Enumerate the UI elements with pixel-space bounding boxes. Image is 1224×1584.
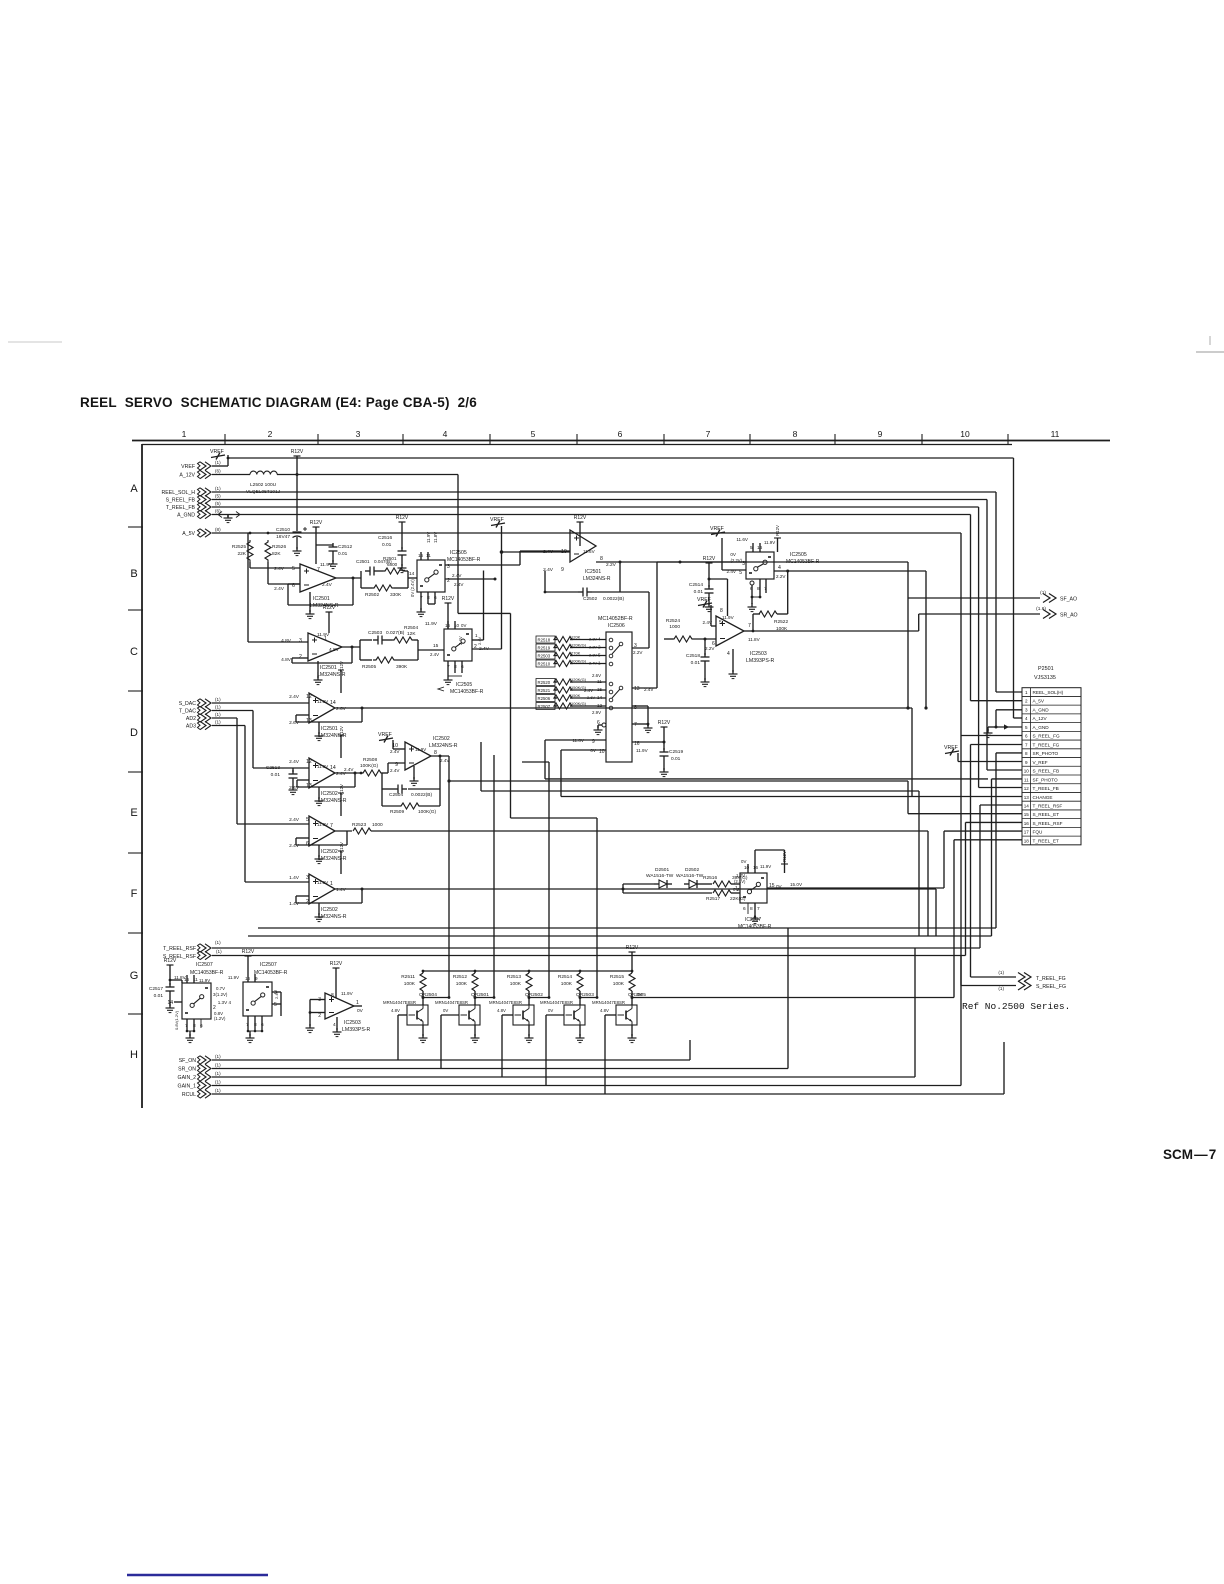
- svg-text:1.4V: 1.4V: [336, 887, 347, 893]
- svg-text:FQU: FQU: [1033, 830, 1044, 835]
- svg-text:SF_PHOTO: SF_PHOTO: [1033, 777, 1059, 782]
- svg-text:C2513: C2513: [266, 765, 280, 771]
- svg-text:4: 4: [1025, 716, 1028, 721]
- wires IC2507B bottom: [247, 1016, 249, 1031]
- svg-text:6: 6: [306, 841, 309, 847]
- svg-text:4: 4: [778, 565, 781, 571]
- analog switch IC2507 C: [740, 873, 767, 903]
- svg-text:IC2501: IC2501: [321, 726, 338, 732]
- svg-text:1: 1: [356, 1000, 359, 1006]
- svg-text:SCM — 7: SCM — 7: [1163, 1147, 1216, 1162]
- svg-text:T_REEL_FG: T_REEL_FG: [1033, 742, 1060, 747]
- svg-text:T_REEL_FB: T_REEL_FB: [166, 505, 196, 511]
- wire QR2503 base feed: [546, 1014, 564, 1016]
- svg-text:REEL SERVO SCHEMATIC DIAGRAM: REEL SERVO SCHEMATIC DIAGRAM (E4: Page C…: [80, 395, 477, 410]
- ground under IC2502E: [413, 766, 415, 779]
- svg-text:WA1516-TW: WA1516-TW: [676, 873, 704, 879]
- svg-text:4.8V: 4.8V: [281, 638, 292, 644]
- svg-text:IC2505: IC2505: [790, 552, 807, 558]
- svg-text:0V (2.4V): 0V (2.4V): [410, 579, 415, 597]
- svg-text:IC2507: IC2507: [260, 962, 277, 968]
- wire T_DAC route: [212, 710, 253, 712]
- wire R2525 to opamp input: [249, 562, 251, 568]
- svg-text:0V: 0V: [461, 623, 466, 628]
- op-amp IC2502 (3,2,1): [309, 874, 335, 904]
- svg-text:MC14052BF-R: MC14052BF-R: [598, 616, 633, 622]
- capacitor C2512: [316, 544, 333, 546]
- svg-text:0.7V: 0.7V: [216, 986, 225, 991]
- svg-text:SR_ON: SR_ON: [178, 1067, 196, 1073]
- wire IC2507C pin15 out to pin17: [767, 887, 944, 889]
- wire AD2 route: [212, 717, 237, 719]
- svg-text:(1): (1): [215, 940, 221, 945]
- faint page artifacts: [8, 341, 62, 343]
- svg-text:2.2V: 2.2V: [776, 574, 786, 579]
- svg-text:MRN14047E8SR: MRN14047E8SR: [435, 1000, 468, 1005]
- svg-text:SF_AO: SF_AO: [1060, 597, 1077, 603]
- svg-text:0V: 0V: [443, 1008, 448, 1013]
- svg-text:(1): (1): [215, 1088, 221, 1093]
- svg-text:R2521: R2521: [538, 688, 551, 693]
- wire RCUL: [212, 1093, 1004, 1095]
- svg-text:11.9V: 11.9V: [636, 748, 649, 753]
- svg-text:MC14053BF-R: MC14053BF-R: [450, 689, 484, 695]
- svg-text:B: B: [130, 568, 137, 580]
- svg-text:V_REF: V_REF: [1033, 760, 1048, 765]
- resistor R2511: [422, 971, 424, 973]
- resistor R2509 feedback: [381, 789, 383, 806]
- svg-text:R12V: R12V: [242, 949, 255, 955]
- svg-text:IC2507: IC2507: [745, 917, 761, 923]
- svg-text:100K(G): 100K(G): [571, 658, 587, 663]
- svg-text:VREF: VREF: [944, 745, 958, 751]
- svg-text:A_5V: A_5V: [1033, 699, 1045, 704]
- op-amp IC2501 B (pins 3,2,1): [308, 633, 342, 661]
- analog switch IC2507 B: [243, 982, 272, 1016]
- svg-text:100K(G): 100K(G): [360, 763, 379, 769]
- svg-text:S_REEL_FB: S_REEL_FB: [166, 498, 196, 504]
- resistor R2523: [335, 830, 352, 832]
- svg-text:4: 4: [333, 1022, 336, 1028]
- svg-text:16V47: 16V47: [276, 534, 290, 540]
- wire A_12V rail: [212, 474, 250, 476]
- resistor R2512: [474, 971, 476, 973]
- svg-text:8: 8: [720, 608, 723, 614]
- svg-text:0.01: 0.01: [154, 993, 164, 999]
- wire A_12V rail drop to pin4: [1013, 458, 1015, 718]
- svg-text:2.4V: 2.4V: [584, 688, 593, 693]
- transistor QR2501: [474, 991, 476, 1005]
- svg-text:D2502: D2502: [685, 867, 699, 873]
- wire IC2507B pin3 5 out: [272, 991, 281, 993]
- wire QR2504 collector: [423, 997, 449, 999]
- svg-text:R2509: R2509: [390, 809, 404, 815]
- svg-text:2.6V: 2.6V: [289, 720, 300, 726]
- svg-text:11.9V: 11.9V: [320, 562, 333, 568]
- svg-text:4: 4: [727, 651, 730, 657]
- input connector GAIN_1: [205, 1081, 211, 1089]
- svg-text:VREF: VREF: [378, 732, 392, 738]
- wire IC2502E out long: [431, 755, 449, 757]
- resistor R2507: [536, 703, 555, 710]
- svg-text:IC2507: IC2507: [196, 962, 213, 968]
- svg-text:100K(G): 100K(G): [418, 809, 437, 815]
- svg-text:C2502: C2502: [583, 596, 597, 602]
- svg-text:R2506: R2506: [538, 696, 551, 701]
- svg-text:(5): (5): [215, 494, 221, 499]
- svg-text:C2504: C2504: [389, 792, 403, 798]
- svg-text:6: 6: [743, 906, 746, 912]
- resistor R2506: [536, 695, 555, 702]
- svg-text:11.9V: 11.9V: [341, 991, 354, 996]
- svg-text:11.9V: 11.9V: [722, 615, 735, 620]
- svg-text:4.8V: 4.8V: [391, 1008, 400, 1013]
- wire REEL_SOL_H rail: [212, 491, 996, 493]
- wire S_REEL_RSF long to pin16: [212, 955, 966, 957]
- wire pin8 stub: [996, 761, 1022, 763]
- svg-text:2: 2: [306, 899, 309, 905]
- wire to SR_AO: [919, 613, 1040, 615]
- svg-text:CHANGE: CHANGE: [1033, 795, 1053, 800]
- wire QR2504 base feed: [398, 1014, 407, 1016]
- svg-text:A_12V: A_12V: [1033, 716, 1048, 721]
- capacitor C2504 feedback: [439, 756, 441, 789]
- svg-text:11.9V: 11.9V: [425, 621, 438, 627]
- svg-text:2.4V: 2.4V: [390, 749, 400, 754]
- svg-text:1000: 1000: [372, 822, 383, 828]
- resistor R2522: [744, 630, 753, 632]
- svg-text:R2520: R2520: [538, 680, 551, 685]
- svg-text:A_GND: A_GND: [177, 513, 195, 519]
- svg-text:R2526: R2526: [272, 544, 286, 550]
- resistor R2525: [247, 540, 253, 562]
- svg-text:10: 10: [744, 865, 750, 870]
- svg-text:R2524: R2524: [666, 618, 680, 624]
- svg-text:5: 5: [274, 1002, 277, 1008]
- svg-text:22K: 22K: [237, 551, 246, 557]
- svg-text:SR_PHOTO: SR_PHOTO: [1033, 751, 1059, 756]
- wire QR2502 emitter ground: [528, 1025, 530, 1036]
- svg-text:2.4V: 2.4V: [390, 768, 400, 773]
- svg-text:100K: 100K: [456, 981, 468, 987]
- svg-text:VJS3135: VJS3135: [1034, 675, 1056, 681]
- svg-text:LM324NS-R: LM324NS-R: [429, 743, 458, 749]
- input connector VREF: [205, 462, 211, 470]
- svg-text:(1): (1): [215, 697, 221, 702]
- svg-text:270K: 270K: [571, 650, 581, 655]
- svg-text:R2508: R2508: [363, 757, 377, 763]
- svg-text:R12V: R12V: [164, 958, 177, 964]
- svg-text:C2510: C2510: [276, 527, 290, 533]
- wire opamp C out long: [335, 707, 912, 709]
- svg-text:9: 9: [878, 429, 883, 439]
- wire R2526 to opamp inv input: [267, 562, 269, 584]
- wire to T_REEL_FG out: [971, 976, 1017, 978]
- svg-text:15: 15: [433, 643, 439, 649]
- svg-text:S_REEL_ET: S_REEL_ET: [1033, 812, 1060, 817]
- wires IC2503B inputs: [310, 999, 325, 1001]
- svg-text:12: 12: [1024, 786, 1030, 791]
- capacitor C2502 feedback: [619, 562, 621, 592]
- input connector S_REEL_FB: [205, 495, 211, 503]
- wire transistor R12V rail: [423, 970, 632, 972]
- svg-text:R2505: R2505: [362, 664, 376, 670]
- svg-text:2.6V: 2.6V: [592, 673, 601, 678]
- svg-text:R2522: R2522: [774, 619, 788, 625]
- svg-text:6: 6: [1025, 734, 1028, 739]
- svg-text:8: 8: [750, 906, 753, 912]
- wire SR_ON: [212, 1068, 788, 1070]
- svg-text:17: 17: [1024, 830, 1030, 835]
- svg-text:Ref No.2500 Series.: Ref No.2500 Series.: [962, 1001, 1070, 1012]
- svg-text:13: 13: [634, 686, 640, 692]
- op-amp IC2502 (5,6,7): [309, 816, 335, 846]
- svg-text:MC14053BF-R: MC14053BF-R: [254, 970, 288, 976]
- ground under C2510: [296, 537, 298, 549]
- svg-text:F: F: [131, 888, 138, 900]
- svg-text:14: 14: [330, 765, 336, 771]
- svg-text:D2501: D2501: [655, 867, 669, 873]
- wires IC2507C bottom: [747, 903, 749, 914]
- svg-text:0V: 0V: [741, 859, 746, 864]
- svg-text:IC2502: IC2502: [321, 849, 338, 855]
- svg-text:VREF: VREF: [710, 526, 724, 532]
- op-amp IC2501 A (pins 5,6,7): [300, 564, 336, 592]
- svg-text:7: 7: [757, 906, 760, 912]
- svg-text:12: 12: [306, 694, 312, 700]
- input connector T_REEL_RSF: [205, 944, 211, 952]
- svg-text:IC2502: IC2502: [433, 736, 450, 742]
- svg-text:120K: 120K: [571, 634, 581, 639]
- wires IC2505A bottom pins: [420, 592, 422, 610]
- svg-text:8: 8: [331, 993, 334, 999]
- wire bottom rail y936 to pin11: [248, 935, 992, 937]
- op-amp IC2501 C (pins 10,9,8): [570, 530, 596, 562]
- svg-text:100K(G): 100K(G): [571, 701, 587, 706]
- svg-text:120K(G): 120K(G): [571, 642, 587, 647]
- svg-text:5: 5: [739, 570, 742, 576]
- wire IC2503B out: [354, 1005, 362, 1007]
- wire QR2501 collector: [475, 997, 494, 999]
- wire QR2502 collector: [529, 997, 549, 999]
- svg-text:AD3: AD3: [186, 724, 196, 730]
- svg-text:(1): (1): [215, 712, 221, 717]
- ground at IC2503A pin4: [732, 658, 734, 672]
- wire C2517 to IC2507A: [170, 979, 182, 981]
- wire pin6 to S_REEL_FG arrow: [960, 736, 962, 986]
- wire QR2505 base feed: [605, 1014, 616, 1016]
- input connector RCUL: [205, 1090, 211, 1098]
- wire opamp G line join rail: [935, 889, 937, 936]
- svg-text:1.4V: 1.4V: [289, 875, 300, 881]
- analog switch IC2505 C: [746, 552, 774, 579]
- svg-text:0.0022(B): 0.0022(B): [603, 596, 624, 602]
- resistor R2520: [536, 679, 555, 686]
- resistor R2521: [536, 687, 555, 694]
- wire QR2501 emitter ground: [474, 1025, 476, 1036]
- svg-text:LM393PS-R: LM393PS-R: [342, 1027, 371, 1033]
- svg-text:11.8V: 11.8V: [433, 532, 438, 543]
- ground under opamp A: [309, 592, 311, 612]
- svg-text:R2501: R2501: [383, 556, 397, 561]
- wire QR2502 base feed: [502, 1014, 513, 1016]
- op-amp IC2502 E (pins 10,9,8): [405, 742, 431, 770]
- svg-text:T_REEL_RSF: T_REEL_RSF: [163, 946, 196, 952]
- wire opamp C output: [596, 561, 680, 563]
- wire opamp G out long: [335, 888, 936, 890]
- svg-text:R2519: R2519: [538, 645, 551, 650]
- input connector T_DAC: [205, 706, 211, 714]
- svg-text:14: 14: [330, 700, 336, 706]
- svg-text:C2503: C2503: [368, 630, 382, 636]
- diode D2502: [684, 883, 689, 885]
- svg-text:IC2502: IC2502: [321, 907, 338, 913]
- svg-text:18: 18: [1024, 838, 1030, 843]
- svg-text:5: 5: [306, 817, 309, 823]
- svg-text:REEL_SOL(H): REEL_SOL(H): [1033, 690, 1064, 695]
- svg-text:(1.2V): (1.2V): [214, 1016, 226, 1021]
- transistor QR2503: [579, 991, 581, 1005]
- svg-text:R2516: R2516: [703, 875, 717, 881]
- wire A_12V top rail: [228, 457, 1014, 459]
- wire VREF to opamp C plus input: [502, 551, 571, 553]
- svg-text:GAIN_1: GAIN_1: [178, 1084, 197, 1090]
- svg-text:16: 16: [753, 865, 759, 870]
- input connector T_REEL_FB: [205, 503, 211, 511]
- svg-text:C: C: [130, 646, 138, 658]
- svg-text:11.9V: 11.9V: [317, 699, 328, 704]
- wire to IC2505 C pin15: [418, 649, 444, 651]
- svg-text:T_REEL_FG: T_REEL_FG: [1036, 976, 1066, 982]
- wire opamp B feedback bottom: [342, 646, 360, 648]
- svg-text:R2513: R2513: [507, 974, 521, 980]
- wire IC2505A pin3 rail: [445, 564, 520, 566]
- resistor R2518: [536, 636, 555, 643]
- svg-text:AD2: AD2: [186, 716, 196, 722]
- svg-text:MRN14047E8SR: MRN14047E8SR: [592, 1000, 625, 1005]
- svg-text:13: 13: [306, 783, 312, 789]
- svg-text:T_REEL_FB: T_REEL_FB: [1033, 786, 1059, 791]
- svg-text:1000: 1000: [669, 624, 680, 630]
- svg-text:2: 2: [268, 429, 273, 439]
- svg-text:D: D: [130, 727, 138, 739]
- svg-text:12: 12: [306, 759, 312, 765]
- svg-text:R12V: R12V: [310, 520, 323, 526]
- svg-text:2.2V: 2.2V: [606, 562, 617, 568]
- wire AD3 route: [212, 725, 245, 727]
- svg-text:R2512: R2512: [453, 974, 467, 980]
- svg-text:VREF: VREF: [181, 464, 195, 470]
- svg-text:IC2501: IC2501: [313, 596, 330, 602]
- resistor R2526: [265, 540, 271, 562]
- svg-text:3: 3: [306, 875, 309, 881]
- svg-text:C2519: C2519: [669, 749, 683, 755]
- svg-text:R12V: R12V: [323, 605, 336, 611]
- svg-text:MC14053BF-R: MC14053BF-R: [738, 924, 772, 930]
- svg-text:IC2503: IC2503: [750, 651, 767, 657]
- resistor R2519: [536, 644, 555, 651]
- svg-text:(1): (1): [215, 1063, 221, 1068]
- wire opamp G feedback: [361, 889, 363, 903]
- svg-text:1: 1: [182, 429, 187, 439]
- svg-text:1.4V: 1.4V: [289, 901, 300, 907]
- wire QR2504 emitter ground: [422, 1025, 424, 1036]
- wire vertical bus x597: [596, 818, 598, 997]
- svg-text:R2515: R2515: [610, 974, 624, 980]
- svg-text:R12V: R12V: [330, 961, 343, 967]
- svg-text:7: 7: [634, 722, 637, 728]
- svg-text:C2517: C2517: [149, 986, 163, 992]
- svg-text:14: 14: [1024, 803, 1030, 808]
- svg-text:1.3V 4: 1.3V 4: [218, 1000, 232, 1005]
- ground under op-amp IC2502: [318, 787, 320, 799]
- svg-text:7: 7: [1025, 742, 1028, 747]
- svg-text:(1): (1): [215, 1071, 221, 1076]
- svg-text:0.01: 0.01: [694, 589, 704, 595]
- svg-text:R12V: R12V: [396, 515, 409, 521]
- svg-text:11: 11: [1051, 429, 1060, 439]
- wire bottom rail y928 to pin8: [258, 927, 996, 929]
- capacitor C2519: [663, 742, 665, 750]
- wire QR2503 emitter ground: [579, 1025, 581, 1036]
- inductor L2502: [250, 471, 277, 474]
- svg-text:RCUL: RCUL: [182, 1092, 196, 1098]
- svg-text:R12V: R12V: [442, 596, 455, 602]
- svg-text:2.2V: 2.2V: [633, 650, 643, 655]
- input connector A_5V: [205, 529, 211, 537]
- svg-text:C2512: C2512: [338, 544, 352, 550]
- svg-text:R2518: R2518: [538, 637, 551, 642]
- svg-text:6800: 6800: [387, 562, 398, 567]
- svg-text:R2511: R2511: [401, 974, 415, 980]
- svg-text:IC2503: IC2503: [344, 1020, 361, 1026]
- resistor R2517: [713, 890, 731, 896]
- wire GAIN_2: [212, 1076, 915, 1078]
- svg-text:R12V: R12V: [775, 525, 780, 536]
- wire vertical bus x549: [548, 762, 550, 997]
- svg-text:11: 11: [1024, 777, 1029, 782]
- svg-text:R2510: R2510: [538, 661, 551, 666]
- svg-text:10: 10: [1024, 769, 1030, 774]
- svg-text:0.8V(1.2V): 0.8V(1.2V): [174, 1010, 179, 1030]
- svg-text:11.9V: 11.9V: [415, 747, 426, 752]
- input connector SF_ON: [205, 1056, 211, 1064]
- bottom blue line: [127, 1574, 268, 1577]
- left border ticks: [128, 526, 143, 528]
- svg-text:0.01: 0.01: [338, 551, 348, 557]
- wire opamp C feedback: [361, 708, 363, 722]
- svg-text:S_REEL_RSF: S_REEL_RSF: [1033, 821, 1063, 826]
- svg-text:14: 14: [167, 1000, 173, 1006]
- wire to C2510: [296, 475, 298, 532]
- ground under op-amp IC2501: [318, 722, 320, 734]
- svg-text:2.4V: 2.4V: [289, 817, 300, 823]
- svg-text:7: 7: [706, 429, 711, 439]
- svg-text:3: 3: [356, 429, 361, 439]
- svg-text:VREF: VREF: [490, 517, 504, 523]
- svg-text:100K: 100K: [613, 981, 625, 987]
- wire S_DAC to opamp D: [212, 702, 309, 704]
- wire opamp A feedback: [336, 577, 361, 579]
- svg-text:4.8V: 4.8V: [329, 647, 340, 653]
- resistor R2515: [631, 971, 633, 973]
- svg-text:IC2506: IC2506: [608, 623, 625, 629]
- svg-text:MC14053BF-R: MC14053BF-R: [190, 970, 224, 976]
- transistor QR2504: [422, 991, 424, 1005]
- svg-text:R2523: R2523: [352, 822, 366, 828]
- wire opamp D out: [335, 772, 361, 774]
- wire to SF_AO: [657, 561, 908, 563]
